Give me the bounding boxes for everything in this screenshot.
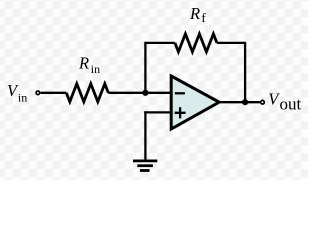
wire feedback right vertical	[244, 43, 246, 102]
wire Vin to R_in	[41, 92, 67, 94]
wire feedback left vertical	[144, 43, 146, 93]
op-amp non-inverting pin plus sign	[175, 107, 186, 118]
node Vout terminal circle	[261, 100, 265, 104]
op-amp inverting pin minus sign	[175, 92, 185, 94]
junction input node	[142, 90, 148, 96]
wire non-inverting input to ground vertical	[144, 111, 146, 161]
wire op-amp output	[219, 101, 260, 103]
wire non-inverting input horizontal	[144, 111, 172, 113]
op-amp U1	[171, 76, 219, 129]
svg-text:out: out	[280, 95, 302, 114]
node Vin terminal circle	[36, 91, 40, 95]
resistor R_in	[66, 84, 108, 102]
svg-text:f: f	[201, 10, 206, 25]
wire feedback top right horizontal	[217, 42, 246, 44]
resistor Rf	[175, 34, 217, 52]
svg-text:in: in	[18, 90, 27, 104]
svg-text:R: R	[78, 53, 89, 72]
wire R_in to op-amp inverting input	[108, 92, 172, 94]
svg-text:R: R	[189, 4, 200, 23]
junction output node	[242, 99, 248, 105]
svg-text:in: in	[91, 62, 100, 76]
wire feedback top left horizontal	[144, 42, 175, 44]
ground	[133, 161, 157, 171]
